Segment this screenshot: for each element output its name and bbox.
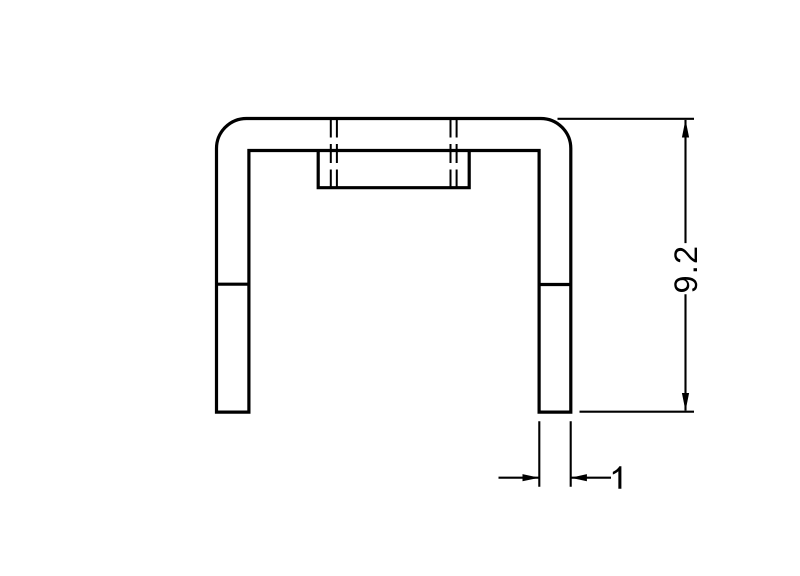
hidden line 3 bbox=[450, 119, 452, 188]
hidden line 4 bbox=[456, 119, 458, 188]
extension line left (1 dim) bbox=[538, 421, 540, 487]
dimension line 1 right segment bbox=[571, 477, 611, 479]
center tab bbox=[318, 151, 469, 188]
extension line top (9.2 dim) bbox=[558, 118, 695, 120]
svg-text:9.2: 9.2 bbox=[668, 245, 704, 294]
hidden line 1 bbox=[330, 119, 332, 188]
dim text 1 bbox=[613, 466, 622, 489]
arrow up (9.2 dim) bbox=[682, 120, 689, 138]
dimension line 9.2 upper segment bbox=[684, 120, 686, 243]
hidden line 2 bbox=[336, 119, 338, 188]
left leg joint line bbox=[217, 283, 249, 286]
right leg joint line bbox=[539, 283, 571, 286]
arrow down (9.2 dim) bbox=[682, 393, 689, 411]
dimension line 9.2 lower segment bbox=[684, 294, 686, 410]
arrow left-pointing (1 dim) bbox=[571, 474, 587, 481]
dimension line 1 left segment bbox=[499, 477, 540, 479]
extension line bottom (9.2 dim) bbox=[580, 411, 695, 413]
extension line right (1 dim) bbox=[570, 421, 572, 487]
part outline (U-clip profile) bbox=[217, 119, 571, 413]
arrow right-pointing (1 dim) bbox=[523, 474, 540, 481]
